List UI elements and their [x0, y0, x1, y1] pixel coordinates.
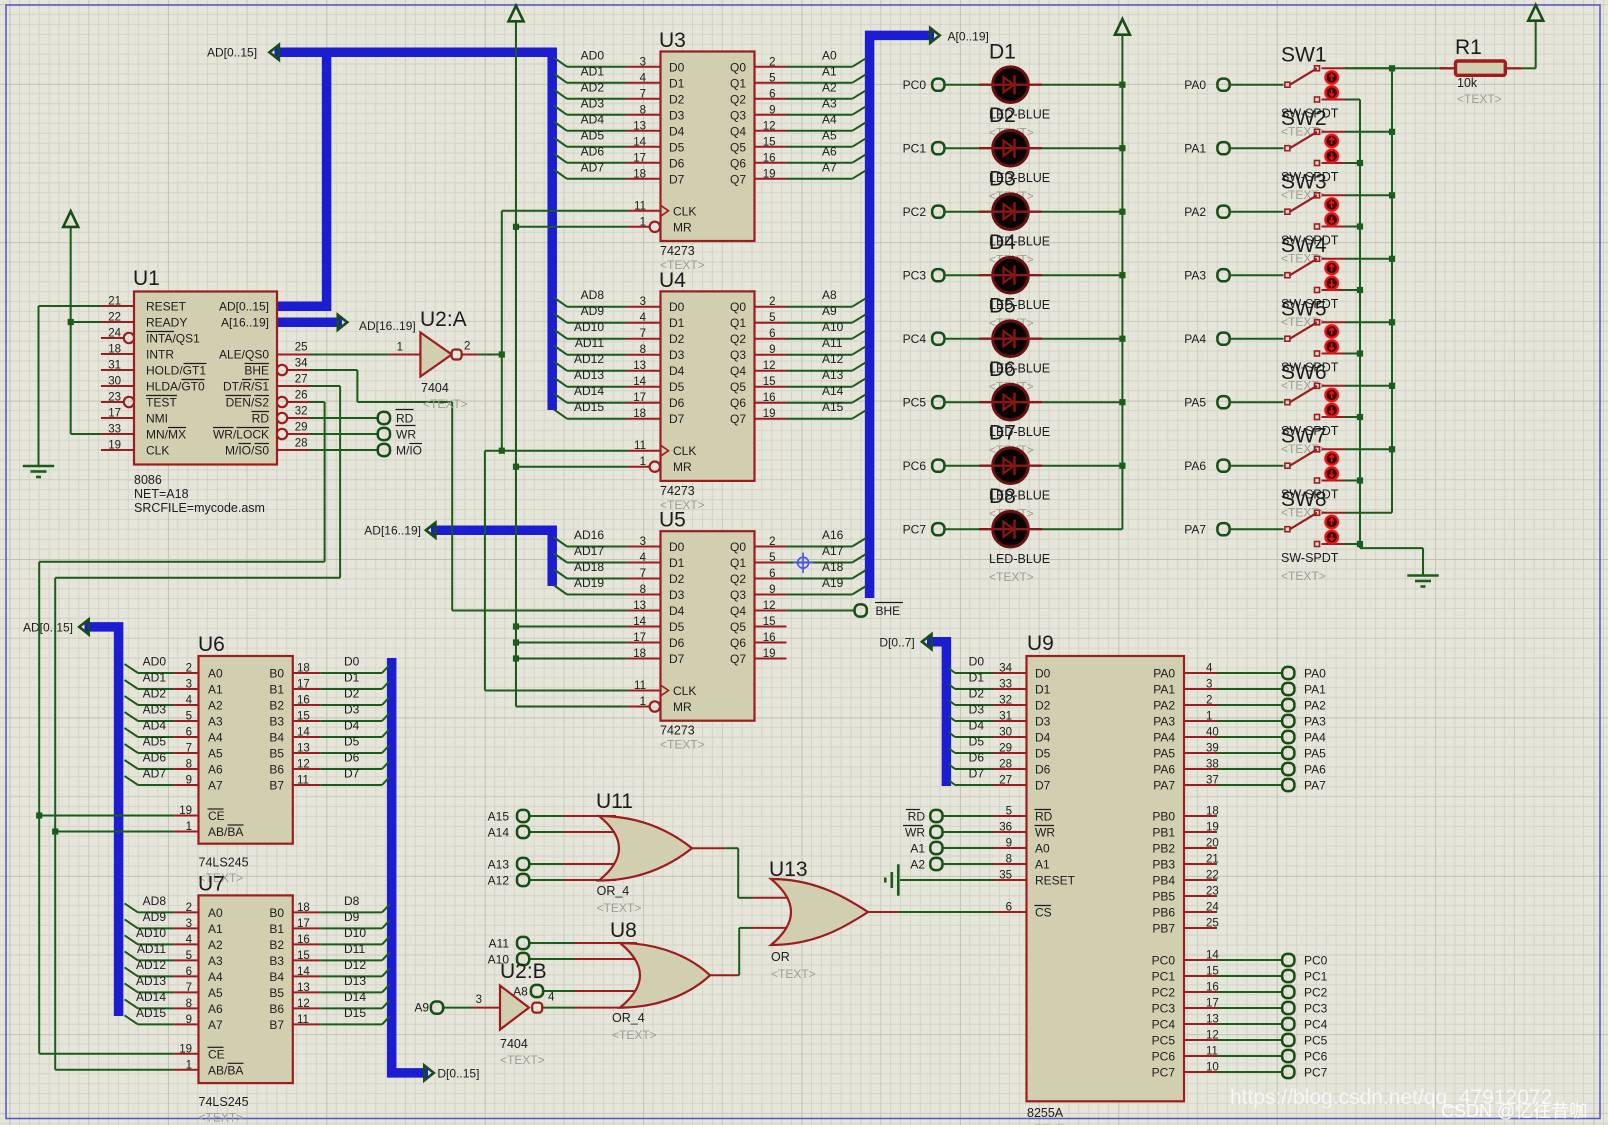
- svg-text:RD: RD: [908, 810, 926, 824]
- svg-text:5: 5: [769, 312, 775, 324]
- svg-text:24: 24: [1206, 902, 1219, 914]
- svg-text:2: 2: [769, 56, 775, 68]
- svg-text:24: 24: [108, 328, 121, 340]
- svg-text:D1: D1: [669, 316, 685, 330]
- svg-text:13: 13: [297, 743, 310, 755]
- svg-text:B3: B3: [269, 715, 284, 729]
- svg-text:BHE: BHE: [244, 364, 269, 378]
- svg-text:A17: A17: [822, 544, 844, 558]
- svg-text:AD4: AD4: [581, 112, 605, 126]
- svg-text:U7: U7: [198, 872, 225, 895]
- svg-text:WR/LOCK: WR/LOCK: [213, 428, 269, 442]
- svg-text:D12: D12: [344, 958, 366, 972]
- wire ALE net (U1 ALE via U2:A to CLK of U3/U4/U5): [310, 211, 628, 691]
- bus A[16..19] (U1 output, net AD[16..19]): [277, 315, 416, 333]
- svg-text:PB7: PB7: [1152, 922, 1175, 936]
- svg-text:Q0: Q0: [730, 300, 746, 314]
- svg-text:AB/BA: AB/BA: [208, 1063, 243, 1077]
- LED D4 (LED-BLUE): [944, 231, 1122, 330]
- svg-text:8: 8: [186, 759, 192, 771]
- svg-text:B1: B1: [269, 683, 284, 697]
- svg-text:AB/BA: AB/BA: [208, 825, 243, 839]
- svg-text:B3: B3: [269, 954, 284, 968]
- svg-text:PC5: PC5: [903, 396, 927, 410]
- svg-text:A11: A11: [822, 336, 843, 350]
- svg-text:AD9: AD9: [581, 304, 605, 318]
- svg-text:AD18: AD18: [574, 560, 604, 574]
- svg-text:DT/R/S1: DT/R/S1: [223, 380, 269, 394]
- switch SW2 (SW-SPDT): [1229, 107, 1392, 202]
- svg-text:32: 32: [999, 695, 1012, 707]
- svg-text:PC4: PC4: [903, 332, 927, 346]
- svg-text:39: 39: [1206, 743, 1219, 755]
- svg-text:AD7: AD7: [143, 767, 167, 781]
- terminal PC0 (U9 side): [1282, 954, 1327, 968]
- svg-text:PC0: PC0: [1304, 954, 1328, 968]
- svg-text:A2: A2: [822, 80, 837, 94]
- bus AD[16..19] (to U5): [364, 523, 552, 586]
- svg-text:U1: U1: [133, 267, 160, 290]
- power arrow (R1 pull-up): [1528, 5, 1543, 21]
- svg-text:<TEXT>: <TEXT>: [771, 967, 816, 981]
- svg-text:Q3: Q3: [730, 588, 746, 602]
- svg-text:D0: D0: [969, 655, 985, 669]
- terminal A11: [489, 937, 530, 951]
- terminal PA2 (U9 side): [1282, 699, 1326, 713]
- svg-text:D4: D4: [969, 719, 985, 733]
- wire RESET to ground: [900, 879, 994, 881]
- svg-text:OR: OR: [771, 950, 790, 964]
- wire RD net: [310, 417, 378, 419]
- svg-text:34: 34: [295, 358, 308, 370]
- terminal BHE (U5 Q4): [855, 603, 903, 619]
- svg-text:<TEXT>: <TEXT>: [1457, 92, 1502, 106]
- svg-text:18: 18: [108, 344, 121, 356]
- svg-text:PB3: PB3: [1152, 858, 1175, 872]
- svg-text:18: 18: [297, 902, 310, 914]
- wire U11 output to U13: [725, 848, 800, 898]
- svg-text:<TEXT>: <TEXT>: [597, 901, 642, 915]
- wire BHE net (U1 BHE to U5 D4): [310, 370, 627, 611]
- svg-text:D5: D5: [669, 380, 685, 394]
- terminal PC6 (LED column): [903, 459, 945, 473]
- svg-text:3: 3: [640, 296, 646, 308]
- svg-text:3: 3: [186, 679, 192, 691]
- svg-text:A0: A0: [1035, 842, 1050, 856]
- svg-text:<TEXT>: <TEXT>: [660, 738, 705, 752]
- svg-text:A16: A16: [822, 528, 844, 542]
- svg-text:PC0: PC0: [903, 78, 927, 92]
- svg-text:5: 5: [1006, 806, 1012, 818]
- svg-text:Q2: Q2: [730, 92, 746, 106]
- svg-text:PB5: PB5: [1152, 890, 1175, 904]
- svg-text:U13: U13: [769, 858, 808, 881]
- terminal PA4 (U9 side): [1282, 731, 1326, 745]
- svg-text:6: 6: [186, 727, 192, 739]
- svg-text:WR: WR: [1035, 826, 1055, 840]
- svg-text:U5: U5: [659, 509, 686, 532]
- svg-text:PB4: PB4: [1152, 874, 1175, 888]
- terminal PA6 (switch column): [1184, 459, 1229, 473]
- switch SW3 (SW-SPDT): [1229, 171, 1392, 266]
- svg-text:26: 26: [295, 390, 308, 402]
- svg-text:PA4: PA4: [1184, 332, 1206, 346]
- svg-text:D5: D5: [969, 735, 985, 749]
- svg-text:U3: U3: [659, 29, 686, 52]
- svg-text:7: 7: [640, 328, 646, 340]
- svg-text:D1: D1: [669, 76, 685, 90]
- terminal A12: [488, 874, 530, 888]
- svg-text:D0: D0: [669, 300, 685, 314]
- svg-text:PC6: PC6: [1304, 1050, 1328, 1064]
- svg-text:PC2: PC2: [1304, 986, 1328, 1000]
- terminal WR: [378, 426, 417, 442]
- svg-text:D[0..7]: D[0..7]: [879, 635, 914, 649]
- svg-text:PC1: PC1: [1152, 970, 1176, 984]
- svg-text:PA7: PA7: [1184, 523, 1206, 537]
- svg-text:MR: MR: [673, 460, 692, 474]
- svg-text:D15: D15: [344, 1006, 366, 1020]
- svg-text:U4: U4: [659, 269, 686, 292]
- svg-text:A5: A5: [208, 747, 223, 761]
- svg-text:B4: B4: [269, 731, 284, 745]
- svg-text:36: 36: [999, 822, 1012, 834]
- svg-text:33: 33: [999, 679, 1012, 691]
- svg-text:D8: D8: [344, 894, 360, 908]
- svg-text:AD19: AD19: [574, 576, 604, 590]
- svg-text:DEN/S2: DEN/S2: [226, 396, 270, 410]
- svg-text:PA5: PA5: [1184, 396, 1206, 410]
- wire switch rail B (pull-up, upper throws): [1389, 65, 1395, 513]
- svg-text:AD[16..19]: AD[16..19]: [364, 524, 421, 538]
- switch SW4 (SW-SPDT): [1229, 234, 1392, 329]
- svg-text:PC4: PC4: [1152, 1018, 1176, 1032]
- svg-text:1: 1: [640, 696, 646, 708]
- svg-text:D10: D10: [344, 926, 366, 940]
- svg-text:A7: A7: [208, 1018, 223, 1032]
- svg-text:4: 4: [186, 934, 193, 946]
- inverter U2:A (7404): [389, 308, 478, 411]
- svg-text:U9: U9: [1027, 632, 1054, 655]
- svg-text:PA3: PA3: [1153, 715, 1175, 729]
- svg-text:D1: D1: [989, 41, 1016, 64]
- svg-text:A[0..19]: A[0..19]: [948, 30, 989, 44]
- svg-text:12: 12: [763, 360, 776, 372]
- ground (switch rail): [1407, 576, 1438, 587]
- svg-text:5: 5: [769, 72, 775, 84]
- svg-text:D7: D7: [989, 422, 1016, 445]
- wire R1 to VCC: [1535, 21, 1537, 69]
- terminal PA6 (U9 side): [1282, 763, 1326, 777]
- svg-text:13: 13: [633, 120, 646, 132]
- svg-text:A10: A10: [822, 320, 844, 334]
- svg-text:CE: CE: [208, 809, 225, 823]
- svg-text:AD15: AD15: [574, 400, 604, 414]
- svg-text:30: 30: [999, 727, 1012, 739]
- svg-text:31: 31: [108, 360, 121, 372]
- svg-text:33: 33: [108, 424, 121, 436]
- terminal M/IO: [378, 444, 422, 458]
- svg-text:D5: D5: [344, 735, 360, 749]
- svg-text:INTR: INTR: [146, 348, 174, 362]
- svg-text:AD8: AD8: [581, 288, 605, 302]
- svg-text:31: 31: [999, 711, 1012, 723]
- svg-text:PA6: PA6: [1153, 763, 1175, 777]
- svg-text:A1: A1: [208, 922, 223, 936]
- svg-text:B7: B7: [269, 1018, 284, 1032]
- svg-text:B6: B6: [269, 1002, 284, 1016]
- svg-text:10k: 10k: [1457, 76, 1478, 90]
- svg-text:12: 12: [1206, 1030, 1219, 1042]
- svg-text:7: 7: [186, 743, 192, 755]
- svg-text:<TEXT>: <TEXT>: [989, 570, 1034, 584]
- svg-text:Q1: Q1: [730, 556, 746, 570]
- svg-text:37: 37: [1206, 775, 1219, 787]
- buffer U6 (74LS245): [125, 633, 390, 885]
- svg-text:D5: D5: [1035, 747, 1051, 761]
- svg-text:16: 16: [297, 695, 310, 707]
- LED D3 (LED-BLUE): [944, 168, 1122, 267]
- svg-text:RD: RD: [252, 412, 270, 426]
- svg-text:D7: D7: [669, 412, 685, 426]
- svg-text:AD12: AD12: [574, 352, 604, 366]
- svg-text:D2: D2: [669, 572, 685, 586]
- svg-text:25: 25: [295, 342, 308, 354]
- svg-text:D6: D6: [1035, 763, 1051, 777]
- bus AD[0..15] (top, U1 to U3/U4): [207, 45, 552, 410]
- svg-text:15: 15: [297, 950, 310, 962]
- svg-text:<TEXT>: <TEXT>: [423, 397, 468, 411]
- terminal RD: [378, 410, 414, 426]
- svg-text:27: 27: [999, 775, 1012, 787]
- terminal PA7 (U9 side): [1282, 779, 1326, 793]
- svg-text:29: 29: [295, 422, 308, 434]
- terminal PC5 (U9 side): [1282, 1034, 1327, 1048]
- svg-text:SW-SPDT: SW-SPDT: [1281, 551, 1339, 565]
- svg-text:A13: A13: [822, 368, 844, 382]
- svg-text:<TEXT>: <TEXT>: [612, 1028, 657, 1042]
- svg-text:A11: A11: [489, 937, 510, 951]
- svg-text:A3: A3: [208, 954, 223, 968]
- svg-text:35: 35: [999, 870, 1012, 882]
- svg-text:PC2: PC2: [1152, 986, 1176, 1000]
- svg-text:B0: B0: [269, 906, 284, 920]
- svg-text:18: 18: [633, 648, 646, 660]
- svg-text:D7: D7: [969, 767, 985, 781]
- svg-text:D0: D0: [669, 540, 685, 554]
- wire CS net (U13 out to U9 CS): [898, 911, 993, 913]
- svg-text:D14: D14: [344, 990, 366, 1004]
- svg-text:PC3: PC3: [1152, 1002, 1176, 1016]
- svg-text:OR_4: OR_4: [612, 1011, 645, 1025]
- svg-text:Q6: Q6: [730, 156, 746, 170]
- svg-text:1: 1: [397, 342, 403, 354]
- svg-text:D6: D6: [669, 396, 685, 410]
- wire WR net: [310, 433, 378, 435]
- svg-text:19: 19: [179, 1043, 192, 1055]
- svg-text:6: 6: [186, 966, 192, 978]
- svg-text:6: 6: [769, 568, 775, 580]
- svg-text:2: 2: [1206, 695, 1212, 707]
- svg-text:D11: D11: [344, 942, 365, 956]
- svg-text:AD1: AD1: [581, 64, 605, 78]
- svg-text:16: 16: [1206, 982, 1219, 994]
- svg-text:D2: D2: [344, 687, 360, 701]
- svg-text:A14: A14: [822, 384, 844, 398]
- svg-text:2: 2: [769, 296, 775, 308]
- svg-text:D6: D6: [669, 636, 685, 650]
- svg-text:D1: D1: [669, 556, 685, 570]
- svg-text:34: 34: [999, 663, 1012, 675]
- svg-text:AD14: AD14: [136, 990, 166, 1004]
- wire RESET to ground: [39, 306, 102, 466]
- svg-text:A5: A5: [822, 128, 837, 142]
- svg-text:74273: 74273: [660, 724, 695, 738]
- svg-text:A3: A3: [208, 715, 223, 729]
- svg-text:CSDN @忆往昔咖: CSDN @忆往昔咖: [1441, 1101, 1587, 1121]
- svg-text:D1: D1: [1035, 683, 1051, 697]
- svg-text:PC5: PC5: [1304, 1034, 1328, 1048]
- svg-text:11: 11: [634, 200, 646, 212]
- terminal PA0 (switch column): [1184, 78, 1229, 92]
- svg-text:SRCFILE=mycode.asm: SRCFILE=mycode.asm: [134, 501, 265, 515]
- svg-text:29: 29: [999, 743, 1012, 755]
- node marker (origin crosshair): [793, 553, 813, 573]
- svg-text:8: 8: [1006, 854, 1012, 866]
- svg-text:B5: B5: [269, 747, 284, 761]
- svg-text:SW3: SW3: [1281, 171, 1327, 194]
- svg-text:15: 15: [1206, 966, 1219, 978]
- svg-text:PA4: PA4: [1153, 731, 1175, 745]
- svg-text:D6: D6: [344, 751, 360, 765]
- svg-text:M/IO: M/IO: [396, 444, 422, 458]
- switch SW5 (SW-SPDT): [1229, 298, 1392, 393]
- svg-text:D2: D2: [989, 104, 1016, 127]
- svg-text:14: 14: [633, 136, 646, 148]
- svg-text:A6: A6: [822, 144, 837, 158]
- svg-text:15: 15: [763, 376, 776, 388]
- svg-text:Q5: Q5: [730, 620, 746, 634]
- CPU U1 (8086): [101, 267, 310, 515]
- svg-text:15: 15: [297, 711, 310, 723]
- svg-text:9: 9: [186, 1014, 192, 1026]
- svg-text:Q5: Q5: [730, 380, 746, 394]
- svg-text:PC7: PC7: [1304, 1066, 1328, 1080]
- svg-text:AD16: AD16: [574, 528, 604, 542]
- svg-text:MN/MX: MN/MX: [146, 428, 186, 442]
- svg-text:PA5: PA5: [1153, 747, 1175, 761]
- svg-text:12: 12: [763, 600, 776, 612]
- svg-text:16: 16: [763, 632, 776, 644]
- terminal A8: [513, 985, 543, 999]
- svg-text:11: 11: [634, 680, 646, 692]
- svg-text:AD6: AD6: [143, 751, 167, 765]
- svg-text:HLDA/GT0: HLDA/GT0: [146, 380, 205, 394]
- svg-text:Q6: Q6: [730, 396, 746, 410]
- svg-text:PA3: PA3: [1304, 715, 1326, 729]
- svg-text:MR: MR: [673, 220, 692, 234]
- svg-text:14: 14: [297, 966, 310, 978]
- svg-text:D6: D6: [989, 358, 1016, 381]
- terminal PC5 (LED column): [903, 396, 945, 410]
- svg-text:Q7: Q7: [730, 652, 746, 666]
- svg-text:D0: D0: [1035, 667, 1051, 681]
- svg-text:Q3: Q3: [730, 108, 746, 122]
- svg-text:17: 17: [633, 632, 646, 644]
- svg-text:D5: D5: [669, 140, 685, 154]
- svg-text:SW8: SW8: [1281, 488, 1327, 511]
- svg-text:AD17: AD17: [574, 544, 604, 558]
- svg-text:B5: B5: [269, 986, 284, 1000]
- svg-text:D3: D3: [1035, 715, 1051, 729]
- wire DT/R net (U1 DT/R to U6/U7 AB/BA): [52, 386, 340, 1070]
- svg-text:38: 38: [1206, 759, 1219, 771]
- svg-text:CS: CS: [1035, 906, 1052, 920]
- svg-text:3: 3: [640, 536, 646, 548]
- svg-text:4: 4: [640, 552, 647, 564]
- terminal PA5 (switch column): [1184, 396, 1229, 410]
- svg-text:SW4: SW4: [1281, 234, 1327, 257]
- svg-text:A13: A13: [488, 858, 510, 872]
- svg-text:15: 15: [763, 616, 776, 628]
- svg-text:PA7: PA7: [1304, 779, 1326, 793]
- svg-text:A18: A18: [822, 560, 844, 574]
- svg-text:ALE/QS0: ALE/QS0: [219, 348, 269, 362]
- svg-text:3: 3: [476, 994, 482, 1006]
- terminal PA7 (switch column): [1184, 523, 1229, 537]
- svg-text:Q7: Q7: [730, 172, 746, 186]
- power arrow (LED rail): [1115, 19, 1130, 35]
- svg-text:Q0: Q0: [730, 60, 746, 74]
- svg-text:9: 9: [1006, 838, 1012, 850]
- svg-text:D2: D2: [669, 332, 685, 346]
- svg-text:13: 13: [633, 600, 646, 612]
- switch SW6 (SW-SPDT): [1229, 361, 1392, 456]
- svg-text:17: 17: [1206, 998, 1219, 1010]
- svg-text:AD[0..15]: AD[0..15]: [207, 46, 257, 60]
- svg-text:D4: D4: [344, 719, 360, 733]
- svg-text:R1: R1: [1455, 36, 1482, 59]
- svg-text:B4: B4: [269, 970, 284, 984]
- svg-text:D3: D3: [669, 108, 685, 122]
- svg-text:1: 1: [640, 216, 646, 228]
- svg-text:23: 23: [108, 392, 121, 404]
- svg-text:14: 14: [633, 376, 646, 388]
- svg-text:Q6: Q6: [730, 636, 746, 650]
- svg-text:AD11: AD11: [575, 336, 604, 350]
- svg-text:28: 28: [295, 438, 308, 450]
- svg-text:AD14: AD14: [574, 384, 604, 398]
- svg-text:13: 13: [1206, 1014, 1219, 1026]
- svg-text:AD0: AD0: [143, 655, 167, 669]
- svg-text:9: 9: [769, 344, 775, 356]
- svg-text:CLK: CLK: [673, 684, 696, 698]
- svg-text:PC6: PC6: [903, 459, 927, 473]
- svg-text:D3: D3: [344, 703, 360, 717]
- svg-text:13: 13: [297, 982, 310, 994]
- svg-text:12: 12: [763, 120, 776, 132]
- svg-text:Q2: Q2: [730, 572, 746, 586]
- svg-text:B2: B2: [269, 938, 284, 952]
- svg-text:AD9: AD9: [143, 910, 167, 924]
- svg-text:6: 6: [1006, 902, 1012, 914]
- svg-text:11: 11: [297, 1014, 309, 1026]
- svg-text:PC2: PC2: [903, 205, 927, 219]
- terminal PC0 (LED column): [903, 78, 945, 92]
- ground (below U1 RESET): [23, 466, 54, 477]
- svg-text:<TEXT>: <TEXT>: [500, 1053, 545, 1067]
- svg-text:D7: D7: [669, 652, 685, 666]
